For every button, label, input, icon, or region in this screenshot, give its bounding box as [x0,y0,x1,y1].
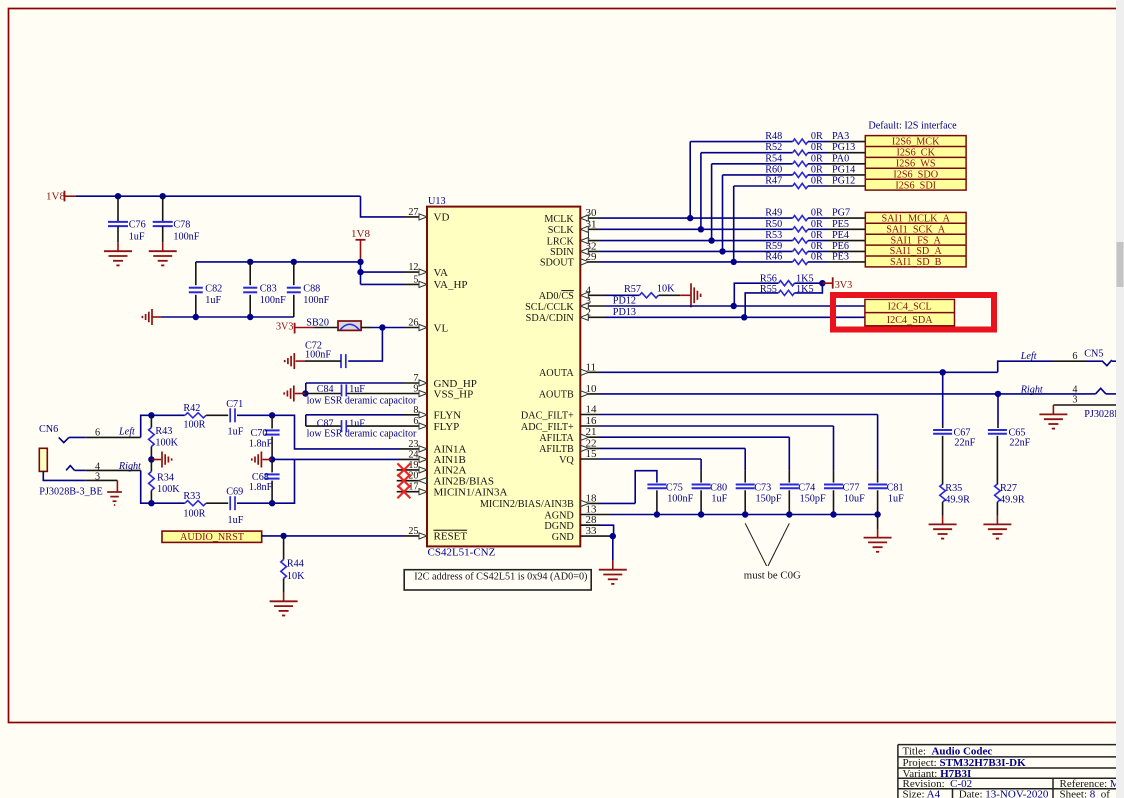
svg-text:22nF: 22nF [954,437,975,448]
svg-text:1.8nF: 1.8nF [249,439,273,450]
svg-text:I2S6_SDI: I2S6_SDI [895,180,936,191]
svg-text:Right: Right [118,461,142,472]
svg-text:C71: C71 [226,399,243,410]
svg-text:SDOUT: SDOUT [540,258,575,269]
svg-text:SAI1_MCLK_A: SAI1_MCLK_A [881,213,950,224]
svg-text:VA_HP: VA_HP [434,279,468,291]
svg-text:low ESR deramic capacitor: low ESR deramic capacitor [307,429,417,440]
svg-text:100R: 100R [183,420,205,431]
svg-text:Date: 13-NOV-2020: Date: 13-NOV-2020 [959,788,1049,798]
svg-text:MICIN2/BIAS/AIN3B: MICIN2/BIAS/AIN3B [480,499,574,510]
svg-text:3V3: 3V3 [835,280,853,291]
svg-text:150pF: 150pF [756,494,782,505]
svg-text:SAI1_SD_A: SAI1_SD_A [890,246,943,257]
svg-text:0R: 0R [811,142,823,153]
svg-text:SAI1_FS_A: SAI1_FS_A [891,235,942,246]
svg-text:PJ3028B-3_BE: PJ3028B-3_BE [39,487,102,498]
svg-text:Title: Audio Codec: Title: Audio Codec [903,745,993,757]
svg-text:GND: GND [552,532,574,543]
svg-text:1K5: 1K5 [796,284,814,295]
svg-text:C78: C78 [173,220,190,231]
svg-text:VD: VD [434,212,450,224]
svg-text:AFILTB: AFILTB [539,444,574,455]
svg-text:R60: R60 [765,164,782,175]
svg-text:R59: R59 [765,241,782,252]
svg-text:1uF: 1uF [205,295,221,306]
svg-text:3: 3 [1072,395,1077,406]
svg-text:0R: 0R [811,153,823,164]
svg-text:22nF: 22nF [1009,437,1030,448]
svg-text:R52: R52 [765,142,782,153]
svg-text:VQ: VQ [559,455,574,466]
svg-text:PE4: PE4 [832,230,849,241]
svg-text:R56: R56 [760,274,777,285]
svg-text:1uF: 1uF [228,515,244,526]
svg-text:SDIN: SDIN [550,247,574,258]
svg-text:R33: R33 [183,491,200,502]
svg-text:C77: C77 [843,482,860,493]
svg-text:R42: R42 [183,403,200,414]
svg-text:AGND: AGND [544,510,573,521]
svg-text:U13: U13 [428,196,446,207]
svg-text:R55: R55 [760,284,777,295]
svg-text:1V8: 1V8 [351,228,370,240]
svg-text:1uF: 1uF [888,494,904,505]
svg-text:PG14: PG14 [832,164,855,175]
svg-text:VSS_HP: VSS_HP [434,388,474,400]
svg-text:10K: 10K [287,571,305,582]
svg-text:R50: R50 [765,219,782,230]
svg-text:100nF: 100nF [260,295,286,306]
svg-text:CN5: CN5 [1084,348,1103,359]
svg-text:SDA/CDIN: SDA/CDIN [526,313,575,324]
svg-text:I2S6_WS: I2S6_WS [896,158,936,169]
svg-text:AUDIO_NRST: AUDIO_NRST [180,532,245,543]
svg-text:PG12: PG12 [832,176,855,187]
svg-text:CN6: CN6 [39,424,58,435]
svg-text:R49: R49 [765,208,782,219]
svg-text:SB20: SB20 [306,318,329,329]
svg-text:R46: R46 [765,251,782,262]
svg-text:100R: 100R [183,509,205,520]
svg-text:Right: Right [1020,385,1044,396]
svg-text:C76: C76 [129,220,146,231]
svg-text:R44: R44 [287,558,304,569]
svg-text:PE5: PE5 [832,219,849,230]
svg-text:CS42L51-CNZ: CS42L51-CNZ [428,547,496,559]
svg-text:C75: C75 [666,482,683,493]
svg-text:C82: C82 [205,284,222,295]
svg-text:1K5: 1K5 [796,274,814,285]
svg-text:100nF: 100nF [173,232,199,243]
svg-text:6: 6 [1072,351,1077,362]
svg-text:R54: R54 [765,153,782,164]
svg-text:MICIN1/AIN3A: MICIN1/AIN3A [434,487,508,499]
svg-text:100nF: 100nF [305,350,331,361]
svg-text:must be C0G: must be C0G [744,570,801,582]
svg-text:VA: VA [434,267,449,279]
svg-text:100nF: 100nF [303,295,329,306]
svg-text:AFILTA: AFILTA [539,433,574,444]
svg-text:Sheet: 8 of: Sheet: 8 of [1060,788,1111,798]
svg-text:R57: R57 [624,284,641,295]
svg-text:I2S6_CK: I2S6_CK [896,148,935,159]
svg-text:PG7: PG7 [832,208,850,219]
svg-text:10uF: 10uF [844,494,865,505]
svg-text:PD13: PD13 [613,307,636,318]
svg-text:0R: 0R [811,251,823,262]
svg-text:LRCK: LRCK [547,236,575,247]
svg-text:C83: C83 [260,284,277,295]
svg-text:SCLK: SCLK [548,225,575,236]
svg-text:3V3: 3V3 [276,322,294,333]
svg-text:SAI1_SD_B: SAI1_SD_B [890,257,942,268]
svg-text:Left: Left [118,427,136,438]
svg-text:AD0/CS: AD0/CS [539,291,574,302]
svg-text:Default: I2S interface: Default: I2S interface [868,121,957,132]
svg-text:PD12: PD12 [613,296,636,307]
svg-text:C69: C69 [226,487,243,498]
svg-text:0R: 0R [811,131,823,142]
svg-text:C73: C73 [754,482,771,493]
svg-text:I2C address of CS42L51 is 0x94: I2C address of CS42L51 is 0x94 (AD0=0) [414,571,587,582]
svg-text:C88: C88 [303,284,320,295]
svg-text:0R: 0R [811,230,823,241]
svg-text:R48: R48 [765,131,782,142]
svg-text:0R: 0R [811,176,823,187]
svg-text:C80: C80 [710,482,727,493]
svg-text:100K: 100K [155,438,178,449]
svg-text:DGND: DGND [544,521,573,532]
svg-text:C81: C81 [887,482,904,493]
svg-text:1uF: 1uF [349,384,365,395]
svg-text:AOUTB: AOUTB [539,390,574,401]
svg-text:PA3: PA3 [832,131,849,142]
svg-text:Left: Left [1020,351,1038,362]
svg-text:C74: C74 [798,482,815,493]
svg-text:100K: 100K [157,484,180,495]
svg-text:I2C4_SDA: I2C4_SDA [887,315,933,326]
svg-text:R35: R35 [945,483,962,494]
svg-text:I2C4_SCL: I2C4_SCL [888,302,932,313]
svg-text:PE3: PE3 [832,251,849,262]
svg-text:C84: C84 [317,384,334,395]
svg-text:AOUTA: AOUTA [539,368,574,379]
svg-text:ADC_FILT+: ADC_FILT+ [521,422,574,433]
svg-text:0R: 0R [811,241,823,252]
svg-text:3: 3 [95,471,100,482]
svg-text:PG13: PG13 [832,142,855,153]
svg-text:RESET: RESET [434,531,468,543]
svg-text:6: 6 [95,428,100,439]
svg-text:R43: R43 [155,426,172,437]
svg-text:R47: R47 [765,176,782,187]
svg-text:R27: R27 [1000,483,1017,494]
svg-text:49.9R: 49.9R [945,494,970,505]
svg-text:1uF: 1uF [129,232,145,243]
svg-text:SCL/CCLK: SCL/CCLK [525,302,574,313]
svg-text:FLYN: FLYN [434,410,462,422]
svg-text:I2S6_SDO: I2S6_SDO [893,169,938,180]
svg-text:10K: 10K [657,284,675,295]
svg-text:1V8: 1V8 [46,191,65,203]
svg-text:MCLK: MCLK [544,214,574,225]
svg-text:150pF: 150pF [800,494,826,505]
svg-text:Size: A4: Size: A4 [903,788,941,798]
svg-text:1.8nF: 1.8nF [249,482,273,493]
svg-text:0R: 0R [811,164,823,175]
svg-text:0R: 0R [811,219,823,230]
svg-text:VL: VL [434,322,449,334]
svg-text:PA0: PA0 [832,153,849,164]
svg-text:R34: R34 [157,472,174,483]
svg-text:0R: 0R [811,208,823,219]
svg-text:FLYP: FLYP [434,421,460,433]
svg-text:I2S6_MCK: I2S6_MCK [892,137,940,148]
svg-text:R53: R53 [765,230,782,241]
svg-text:SAI1_SCK_A: SAI1_SCK_A [886,224,946,235]
svg-text:DAC_FILT+: DAC_FILT+ [521,410,574,421]
svg-text:1uF: 1uF [228,427,244,438]
svg-text:PE6: PE6 [832,241,849,252]
svg-text:1uF: 1uF [711,494,727,505]
svg-text:100nF: 100nF [667,494,693,505]
svg-text:low ESR deramic capacitor: low ESR deramic capacitor [307,395,417,406]
svg-text:49.9R: 49.9R [1000,494,1025,505]
